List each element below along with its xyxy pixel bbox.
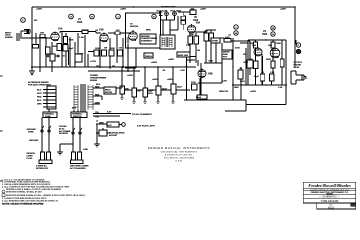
svg-text:FUSE: FUSE [28,131,34,133]
svg-text:68K: 68K [40,33,44,35]
svg-text:POT: POT [223,57,228,59]
svg-text:RED: RED [95,94,100,96]
svg-text:+20V: +20V [222,81,228,83]
svg-text:RED: RED [37,97,42,99]
svg-text:100K: 100K [95,48,100,50]
svg-text:BIAS: BIAS [196,96,202,99]
svg-text:PLUG: PLUG [294,67,300,69]
svg-text:+425V: +425V [280,8,287,11]
svg-text:BLK: BLK [37,90,42,92]
svg-text:7025: 7025 [77,22,83,24]
svg-text:WHT: WHT [37,93,42,95]
svg-text:6K6GTA: 6K6GTA [130,25,139,28]
svg-text:U.S.A.: U.S.A. [175,160,182,163]
svg-text:FUSE: FUSE [45,116,51,118]
svg-text:022699: 022699 [90,80,98,82]
svg-text:1M: 1M [197,50,200,52]
svg-text:REVERB UNIT: REVERB UNIT [161,7,176,9]
svg-text:INT.: INT. [34,20,38,22]
svg-text:GRN: GRN [240,81,245,83]
svg-text:ASSEM.: ASSEM. [5,36,13,39]
svg-text:GRN-YEL: GRN-YEL [219,91,229,93]
svg-text:+415V: +415V [152,78,159,81]
svg-text:CBS MUSICAL INSTRUMENTS: CBS MUSICAL INSTRUMENTS [161,151,198,154]
svg-text:500K: 500K [266,59,271,61]
svg-text:ADJUST: ADJUST [109,134,118,137]
svg-text:10K: 10K [243,54,247,56]
svg-text:INTERLOCK: INTERLOCK [36,168,49,170]
svg-text:6. ALL READINGS ARE ±20% AND V: 6. ALL READINGS ARE ±20% AND VALUES IN O… [2,199,59,202]
svg-text:.0047: .0047 [208,60,214,63]
svg-text:10K: 10K [137,91,141,93]
svg-text:220K: 220K [110,48,115,50]
svg-text:TUBE REVERB: TUBE REVERB [321,200,339,203]
svg-text:+170V: +170V [90,61,97,63]
svg-text:A DIVISION OF CBS INC.: A DIVISION OF CBS INC. [165,154,194,157]
svg-text:SWITCH: SWITCH [73,116,82,118]
svg-text:M: M [272,28,274,30]
svg-text:RCA PLUG: RCA PLUG [157,9,168,12]
svg-text:+410V: +410V [127,74,134,77]
svg-text:M: M [235,33,237,35]
svg-text:Fender/Rowell/Rhodes: Fender/Rowell/Rhodes [308,183,351,188]
svg-text:BLK: BLK [72,108,77,110]
svg-text:MIX: MIX [249,59,253,61]
svg-text:.0047: .0047 [243,61,249,64]
svg-text:LINE: LINE [83,149,88,151]
svg-text:25μF: 25μF [69,48,75,50]
svg-text:DENOTES NORMAL SIGNAL AT 400~.: DENOTES NORMAL SIGNAL AT 400~. [6,190,43,193]
svg-text:DENOTES REVERB SIGNAL AT 400~.: DENOTES REVERB SIGNAL AT 400~. (INSERT A… [6,194,85,197]
svg-text:GRN: GRN [37,104,42,106]
svg-text:10K: 10K [191,9,195,11]
svg-text:V3B: V3B [208,73,213,75]
svg-text:3.3M: 3.3M [189,34,194,36]
svg-text:RED: RED [95,86,100,88]
svg-text:V4B: V4B [268,44,273,47]
svg-text:6.3V: 6.3V [107,112,112,114]
svg-text:— SCHEMATIC —: — SCHEMATIC — [319,196,340,199]
svg-text:DWELL: DWELL [145,56,153,58]
svg-text:V4A: V4A [252,44,257,47]
svg-text:20μF: 20μF [162,89,168,91]
svg-text:TO ALL FILAMENTS: TO ALL FILAMENTS [132,113,152,116]
svg-text:450V: 450V [148,92,153,95]
svg-text:BRN: BRN [146,30,151,32]
svg-text:20μF: 20μF [177,87,183,89]
svg-text:ASSEMBLY: ASSEMBLY [141,40,153,43]
svg-text:V3A: V3A [196,22,201,25]
svg-text:100K: 100K [276,43,281,45]
svg-text:10K: 10K [204,31,208,33]
svg-text:SOURCE: SOURCE [59,133,69,135]
svg-text:GND: GND [234,87,239,89]
svg-text:GROUND: GROUND [29,140,39,142]
svg-text:+420V: +420V [168,58,175,61]
svg-text:1M: 1M [119,48,122,50]
svg-text:PLUG: PLUG [27,158,33,160]
svg-text:BLK: BLK [96,84,101,86]
svg-text:GRN: GRN [95,102,100,104]
svg-text:FULLERTON, CALIFORNIA: FULLERTON, CALIFORNIA [164,157,195,160]
svg-text:OUT: OUT [79,54,84,56]
svg-text:6G15: 6G15 [328,206,335,209]
svg-text:AC POLARIZED: AC POLARIZED [70,167,86,170]
svg-text:2.2M: 2.2M [186,45,191,47]
svg-text:+425V: +425V [200,8,207,11]
svg-text:022706: 022706 [105,92,113,94]
svg-text:+425V: +425V [167,78,174,81]
svg-text:RCA JACK: RCA JACK [171,9,182,12]
svg-text:10K: 10K [125,89,129,91]
svg-text:3.3M: 3.3M [79,37,84,39]
svg-text:1.5K: 1.5K [278,87,283,89]
svg-text:GRN: GRN [99,122,104,124]
svg-text:+15V: +15V [180,70,186,72]
svg-text:470K: 470K [235,47,240,50]
svg-text:7025: 7025 [262,34,268,36]
svg-text:25μF: 25μF [254,76,260,78]
svg-text:+425V: +425V [36,8,43,11]
svg-text:+425V: +425V [120,8,127,11]
svg-text:450Ω 10W: 450Ω 10W [178,54,188,57]
svg-text:V1B: V1B [99,29,104,31]
svg-text:100K: 100K [69,40,74,42]
svg-text:FENDER MUSICAL INSTRUMENTS: FENDER MUSICAL INSTRUMENTS [148,146,210,150]
svg-text:+410V: +410V [250,90,257,93]
svg-text:1W: 1W [104,48,107,50]
svg-text:+425V: +425V [151,61,158,64]
svg-text:NOTES: UNLESS OTHERWISE SPECIF: NOTES: UNLESS OTHERWISE SPECIFIED [2,204,44,206]
svg-text:TONE: TONE [212,41,218,43]
svg-text:.0047: .0047 [83,29,89,32]
svg-text:1.5K: 1.5K [270,72,275,74]
svg-text:6.3V PILOT LIGHT: 6.3V PILOT LIGHT [137,126,156,128]
svg-text:FOR 240V OPERATION: FOR 240V OPERATION [28,84,51,87]
svg-text:V1A: V1A [58,27,63,30]
svg-text:BLU: BLU [37,100,42,102]
